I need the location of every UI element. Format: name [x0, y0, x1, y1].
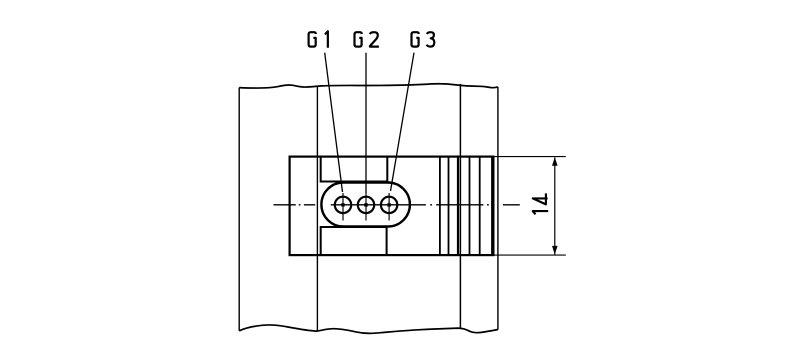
break line top (tube break, wavy)	[239, 84, 498, 88]
label G1	[309, 31, 328, 47]
bottom recess step	[321, 227, 387, 255]
hole G1 centre dot	[341, 203, 344, 206]
hole G1	[335, 197, 351, 213]
tube outer edge right	[497, 87, 499, 330]
rib line 5	[479, 157, 481, 256]
hole G1 centre line vertical	[342, 193, 344, 221]
tube inner edge left	[316, 87, 318, 332]
leader line G1	[325, 53, 343, 192]
leader line G3	[391, 53, 415, 191]
holder body outline	[290, 157, 494, 256]
dimension line 14	[554, 157, 556, 254]
dimension text 14	[533, 193, 548, 214]
leader line G2	[365, 53, 367, 193]
rib line 1	[439, 157, 441, 256]
hole G3 centre dot	[387, 203, 390, 206]
tube inner edge right	[459, 84, 461, 328]
rib line 3	[457, 157, 459, 256]
rib line 2	[448, 157, 450, 256]
hole G3 centre line vertical	[388, 193, 390, 221]
label G3	[412, 32, 435, 46]
dimension arrow bottom	[552, 246, 558, 255]
dimension extension line top	[495, 156, 566, 158]
dimension extension line bottom	[495, 254, 566, 256]
horizontal centre line	[274, 204, 520, 206]
label G2	[355, 32, 379, 46]
contact plate obround	[321, 183, 410, 227]
break line bottom (tube break, wavy)	[239, 325, 498, 333]
tube outer edge left	[238, 88, 240, 331]
hole G2	[358, 197, 374, 213]
top recess step	[321, 157, 388, 182]
hole G2 centre dot	[364, 203, 367, 206]
dimension arrow top	[552, 157, 558, 166]
rib line 4	[469, 157, 471, 256]
hole G3	[381, 197, 397, 213]
rib line 6	[491, 157, 493, 256]
hole G2 centre line vertical	[365, 193, 367, 221]
